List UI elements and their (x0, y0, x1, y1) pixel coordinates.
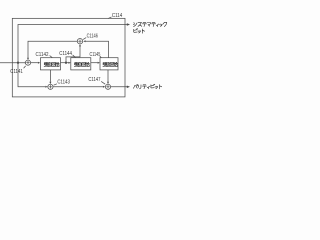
svg-text:C1141: C1141 (10, 69, 22, 75)
node: tap junction (65, 62, 67, 64)
wire: delay3 output tap down to C1147 (107, 70, 109, 82)
wire: tap to adder C1146 (66, 46, 80, 63)
wire: feedback from C1146 (28, 41, 77, 58)
encoder block C114 (12, 18, 125, 97)
wire: systematic branch (18, 25, 127, 63)
wire: input (0, 62, 25, 64)
svg-text:C114: C114 (112, 13, 123, 19)
svg-text:C1143: C1143 (57, 80, 70, 86)
adder C1146 (exclusive-OR) (77, 39, 82, 44)
wire: parity output (111, 86, 128, 88)
svg-text:C1145: C1145 (90, 52, 101, 58)
svg-text:C1142: C1142 (36, 52, 49, 58)
wire: bottom feed to C1143 (18, 63, 45, 87)
svg-text:C1146: C1146 (87, 33, 98, 39)
label parity bit (133, 85, 137, 89)
delay circuit C1144 (71, 58, 91, 70)
label systematic bit (133, 23, 137, 27)
adder C1143 (exclusive-OR) (48, 84, 53, 89)
wire: delay1 to delay2 (61, 62, 69, 64)
svg-text:C1144: C1144 (59, 51, 72, 57)
wire: C1143 to C1147 (53, 86, 103, 88)
wire: delay1 output tap down to C1143 (49, 70, 51, 82)
svg-text:C1147: C1147 (88, 77, 100, 83)
adder C1147 (exclusive-OR) (105, 84, 110, 89)
wire: adder to delay 1 (31, 62, 38, 64)
delay circuit C1145 (100, 58, 118, 70)
delay circuit C1142 (41, 58, 61, 70)
wire: delay3 tap to C1146 (86, 41, 109, 58)
wire: delay2 to delay3 (91, 62, 98, 64)
adder C1141 (exclusive-OR) (25, 60, 30, 65)
node: input junction (17, 62, 19, 64)
